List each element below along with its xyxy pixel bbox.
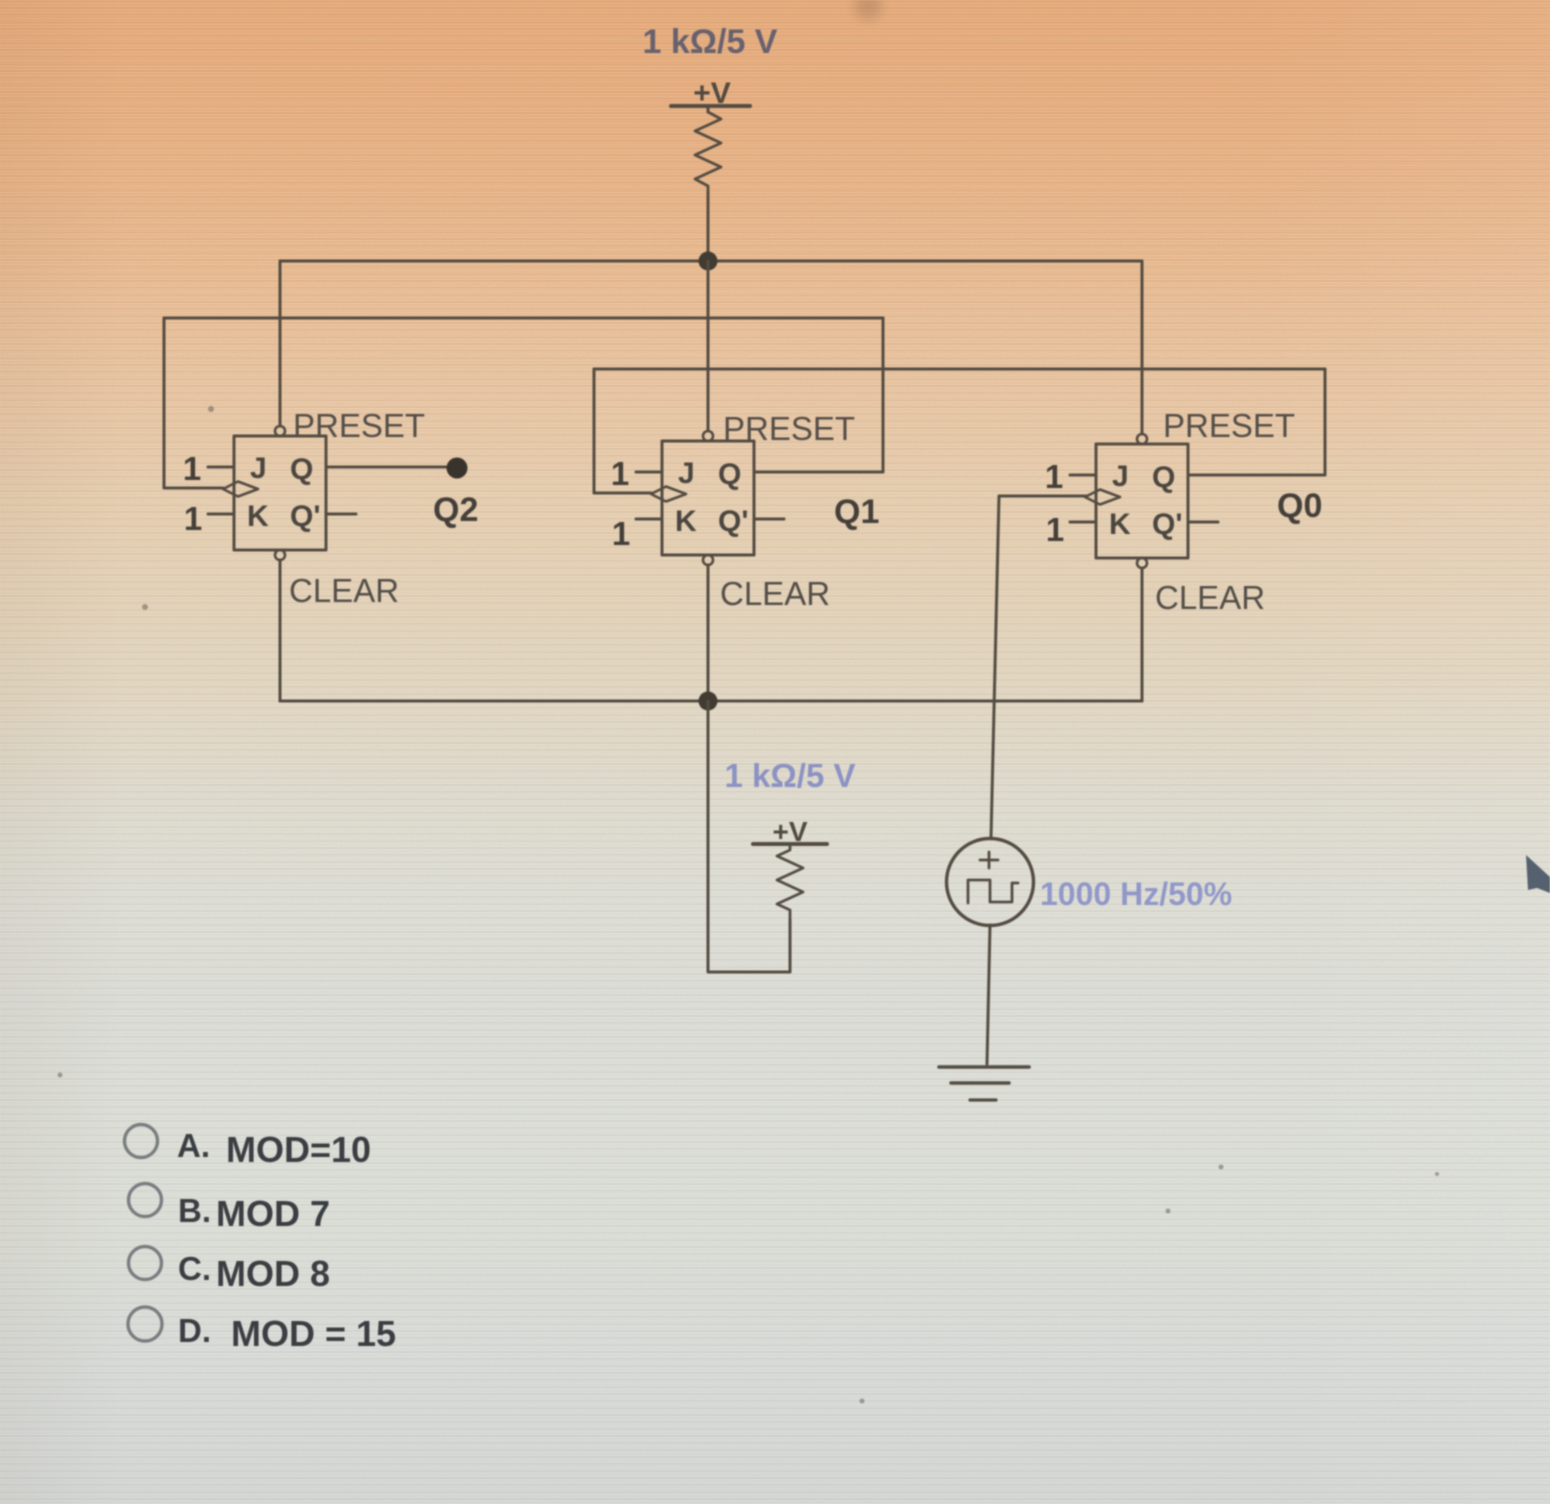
- resistor R2 (1 kΩ pull-up on CLEAR): [777, 845, 803, 920]
- svg-text:CLEAR: CLEAR: [720, 575, 830, 612]
- wire: feedback left drop to U1 clock: [594, 369, 651, 493]
- svg-text:CLEAR: CLEAR: [1155, 579, 1265, 616]
- wire: Q1 output up to feedback run: [754, 318, 883, 472]
- node: Q2 output dot: [447, 458, 468, 479]
- mouse cursor: [1526, 855, 1550, 893]
- JK flip-flop U2: [208, 426, 356, 560]
- node: junction on clear rail: [699, 692, 718, 711]
- wire: U1 CLEAR drop: [707, 565, 710, 701]
- answer options: [125, 1125, 397, 1355]
- svg-text:B.: B.: [178, 1192, 211, 1229]
- dust specks: [58, 406, 1440, 1404]
- clock source V1 (pulse generator): [947, 839, 1034, 926]
- svg-text:1000 Hz/50%: 1000 Hz/50%: [1040, 876, 1232, 912]
- wire: R1 bottom to preset rail junction: [707, 192, 710, 261]
- svg-text:CLEAR: CLEAR: [289, 572, 399, 609]
- svg-text:C.: C.: [178, 1250, 211, 1287]
- wire: preset rail down to U1 PRESET: [707, 261, 710, 431]
- wire: CLEAR rail (horizontal): [280, 700, 1142, 703]
- svg-text:MOD=10: MOD=10: [226, 1129, 371, 1170]
- wire: Q0 feedback to U1 clock (horizontal run): [594, 368, 1325, 371]
- svg-text:PRESET: PRESET: [1163, 407, 1295, 444]
- wire: U2 CLEAR drop: [279, 560, 282, 701]
- svg-text:1: 1: [611, 455, 629, 492]
- svg-text:A.: A.: [177, 1127, 210, 1164]
- svg-text:Q0: Q0: [1277, 487, 1322, 525]
- svg-text:MOD 7: MOD 7: [216, 1193, 330, 1234]
- wire: preset rail down to U2 PRESET: [279, 261, 282, 426]
- radio button C: [129, 1247, 162, 1280]
- svg-text:1: 1: [183, 450, 201, 487]
- wire: clock source to U0 clock: [991, 496, 1086, 838]
- wire: feedback left drop to U2 clock: [164, 318, 223, 488]
- wire: clear rail down to R2: [708, 701, 790, 972]
- ground: [939, 1067, 1029, 1100]
- svg-text:MOD 8: MOD 8: [216, 1253, 330, 1294]
- resistor R1 (1 kΩ pull-up to +V): [695, 112, 721, 192]
- JK flip-flop U0: [1070, 434, 1218, 568]
- JK flip-flop U1: [636, 431, 784, 565]
- svg-text:1: 1: [1045, 458, 1063, 495]
- svg-text:1: 1: [184, 500, 202, 537]
- radio button D: [128, 1307, 162, 1341]
- svg-text:PRESET: PRESET: [293, 407, 425, 444]
- wire: clock source to ground: [987, 925, 990, 1064]
- wire: preset rail down to U0 PRESET: [1141, 261, 1144, 434]
- wire: PRESET rail (horizontal): [280, 260, 1142, 263]
- wire: U0 CLEAR drop: [1141, 568, 1144, 701]
- smudge top: [854, 0, 882, 20]
- svg-text:PRESET: PRESET: [723, 410, 855, 447]
- wire: U2 Q output: [326, 466, 457, 469]
- svg-text:1 kΩ/5 V: 1 kΩ/5 V: [642, 23, 777, 61]
- power supply +V symbol (top): [671, 77, 750, 112]
- svg-text:1: 1: [612, 515, 630, 552]
- svg-text:MOD = 15: MOD = 15: [231, 1313, 396, 1354]
- svg-text:D.: D.: [178, 1312, 211, 1349]
- power supply +V symbol (bottom): [753, 816, 827, 847]
- wire: Q0 output up to feedback run: [1188, 369, 1325, 475]
- svg-text:1: 1: [1046, 511, 1064, 548]
- svg-text:Q1: Q1: [834, 493, 879, 531]
- svg-text:1 kΩ/5 V: 1 kΩ/5 V: [724, 757, 855, 794]
- svg-text:Q2: Q2: [433, 491, 478, 529]
- wire: Q1 feedback to U2 clock (horizontal run): [164, 317, 883, 320]
- radio button B: [129, 1184, 162, 1217]
- node: junction on preset rail: [699, 252, 718, 271]
- radio button A: [125, 1125, 158, 1158]
